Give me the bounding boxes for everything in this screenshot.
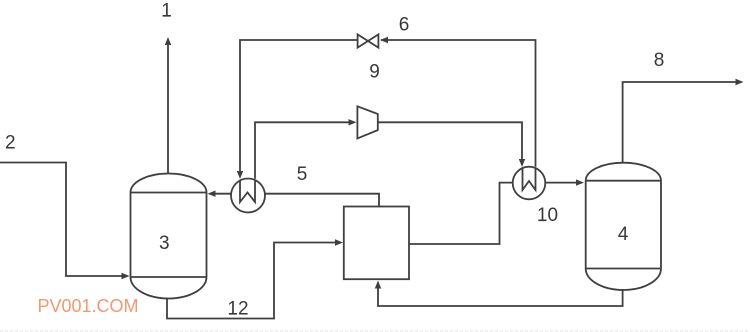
- svg-text:2: 2: [5, 133, 16, 154]
- svg-text:5: 5: [297, 164, 308, 185]
- svg-text:12: 12: [227, 299, 248, 320]
- svg-text:6: 6: [399, 15, 410, 36]
- svg-text:PV001.COM: PV001.COM: [38, 296, 139, 316]
- svg-text:4: 4: [618, 224, 629, 245]
- svg-text:10: 10: [537, 205, 558, 226]
- svg-text:9: 9: [369, 62, 380, 83]
- svg-text:3: 3: [159, 233, 170, 254]
- svg-text:1: 1: [161, 1, 172, 22]
- svg-text:8: 8: [654, 50, 665, 71]
